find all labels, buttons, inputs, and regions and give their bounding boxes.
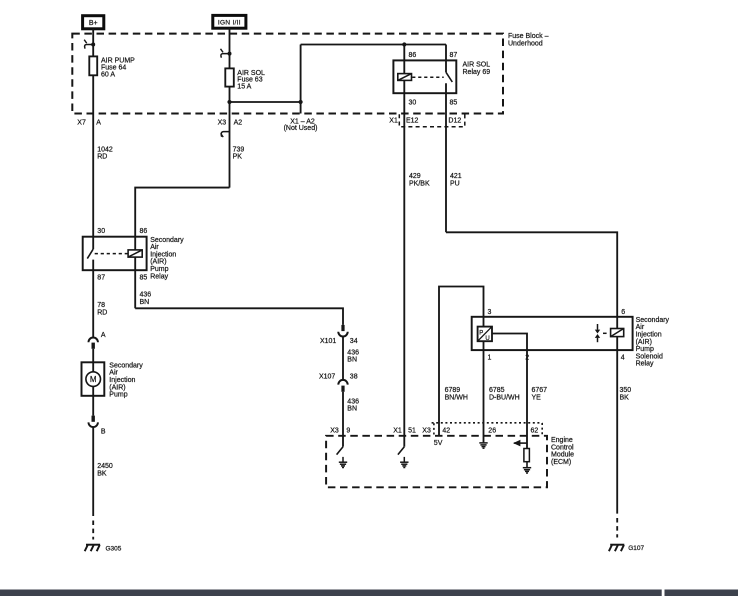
svg-text:G305: G305 <box>106 545 122 552</box>
svg-text:Pump: Pump <box>150 266 168 273</box>
svg-text:BK: BK <box>97 470 107 477</box>
svg-text:2450: 2450 <box>97 463 113 470</box>
svg-text:30: 30 <box>97 228 105 235</box>
svg-text:RD: RD <box>97 154 107 161</box>
svg-text:Air: Air <box>636 324 645 331</box>
svg-text:A: A <box>101 332 106 339</box>
svg-text:X1: X1 <box>389 118 398 125</box>
svg-text:4: 4 <box>621 355 625 362</box>
svg-text:9: 9 <box>346 428 350 435</box>
svg-text:86: 86 <box>140 228 148 235</box>
svg-text:421: 421 <box>450 173 462 180</box>
svg-text:Relay: Relay <box>636 361 654 368</box>
svg-text:Control: Control <box>551 444 574 451</box>
svg-text:87: 87 <box>97 275 105 282</box>
svg-text:RD: RD <box>97 309 107 316</box>
svg-text:Relay: Relay <box>150 273 168 280</box>
svg-text:86: 86 <box>409 52 417 59</box>
svg-text:X101: X101 <box>320 338 336 345</box>
svg-text:P: P <box>479 330 483 336</box>
svg-text:Injection: Injection <box>109 377 135 384</box>
svg-text:AIR SOL: AIR SOL <box>463 62 491 69</box>
svg-text:436: 436 <box>140 292 152 299</box>
svg-text:X1: X1 <box>393 428 402 435</box>
svg-text:BN/WH: BN/WH <box>445 394 468 401</box>
svg-text:Secondary: Secondary <box>636 317 670 324</box>
svg-text:Solenoid: Solenoid <box>636 353 663 360</box>
svg-text:B: B <box>101 428 106 435</box>
svg-text:E12: E12 <box>406 118 419 125</box>
svg-text:(ECM): (ECM) <box>551 459 571 466</box>
svg-text:87: 87 <box>450 52 458 59</box>
svg-text:1: 1 <box>488 355 492 362</box>
svg-text:(AIR): (AIR) <box>636 339 652 346</box>
svg-text:X3: X3 <box>330 428 339 435</box>
svg-text:A2: A2 <box>234 120 243 127</box>
svg-text:(AIR): (AIR) <box>150 259 166 266</box>
svg-text:429: 429 <box>409 173 421 180</box>
svg-text:BK: BK <box>620 394 630 401</box>
svg-text:Air: Air <box>109 370 118 377</box>
svg-text:Relay 69: Relay 69 <box>463 69 491 76</box>
svg-text:Pump: Pump <box>109 392 127 399</box>
svg-text:PU: PU <box>450 180 460 187</box>
svg-text:Fuse 63: Fuse 63 <box>237 77 262 84</box>
svg-text:BN: BN <box>347 406 357 413</box>
svg-text:A: A <box>96 120 101 127</box>
svg-text:BN: BN <box>140 299 150 306</box>
svg-text:AIR PUMP: AIR PUMP <box>101 57 135 64</box>
svg-text:85: 85 <box>140 275 148 282</box>
svg-text:436: 436 <box>347 398 359 405</box>
svg-text:U: U <box>485 336 489 342</box>
svg-text:IGN I/II: IGN I/II <box>218 19 241 26</box>
svg-text:X107: X107 <box>319 374 335 381</box>
svg-text:Injection: Injection <box>150 251 176 258</box>
svg-text:436: 436 <box>347 349 359 356</box>
svg-text:350: 350 <box>620 387 632 394</box>
svg-text:42: 42 <box>442 428 450 435</box>
svg-text:G107: G107 <box>628 545 644 552</box>
svg-text:YE: YE <box>532 394 542 401</box>
svg-text:Fuse Block –: Fuse Block – <box>508 33 549 40</box>
svg-text:30: 30 <box>409 99 417 106</box>
svg-text:26: 26 <box>488 428 496 435</box>
svg-text:Secondary: Secondary <box>150 237 184 244</box>
svg-text:X3: X3 <box>422 428 431 435</box>
svg-text:Engine: Engine <box>551 437 573 444</box>
svg-text:60 A: 60 A <box>101 71 115 78</box>
svg-text:BN: BN <box>347 357 357 364</box>
svg-text:Air: Air <box>150 244 159 251</box>
svg-text:Secondary: Secondary <box>109 362 143 369</box>
svg-text:51: 51 <box>408 428 416 435</box>
svg-text:Underhood: Underhood <box>508 40 543 47</box>
svg-text:1042: 1042 <box>97 146 113 153</box>
svg-text:(Not Used): (Not Used) <box>284 125 318 132</box>
svg-text:78: 78 <box>97 302 105 309</box>
svg-text:6785: 6785 <box>489 387 505 394</box>
svg-text:6789: 6789 <box>445 387 461 394</box>
svg-text:PK: PK <box>233 154 243 161</box>
svg-text:Injection: Injection <box>636 332 662 339</box>
svg-text:5V: 5V <box>434 440 443 447</box>
svg-text:D12: D12 <box>448 118 461 125</box>
svg-text:PK/BK: PK/BK <box>409 180 430 187</box>
svg-text:15 A: 15 A <box>237 84 251 91</box>
svg-text:X3: X3 <box>218 120 227 127</box>
svg-text:3: 3 <box>488 309 492 316</box>
svg-text:B+: B+ <box>89 20 98 27</box>
svg-text:6767: 6767 <box>532 387 548 394</box>
svg-text:Pump: Pump <box>636 346 654 353</box>
svg-text:(AIR): (AIR) <box>109 384 125 391</box>
svg-text:85: 85 <box>450 99 458 106</box>
svg-text:Module: Module <box>551 452 574 459</box>
svg-text:38: 38 <box>350 374 358 381</box>
svg-text:M: M <box>90 375 97 384</box>
svg-text:739: 739 <box>233 146 245 153</box>
svg-text:X7: X7 <box>77 120 86 127</box>
svg-text:6: 6 <box>621 309 625 316</box>
svg-text:D-BU/WH: D-BU/WH <box>489 394 520 401</box>
svg-text:34: 34 <box>350 338 358 345</box>
svg-text:62: 62 <box>531 428 539 435</box>
